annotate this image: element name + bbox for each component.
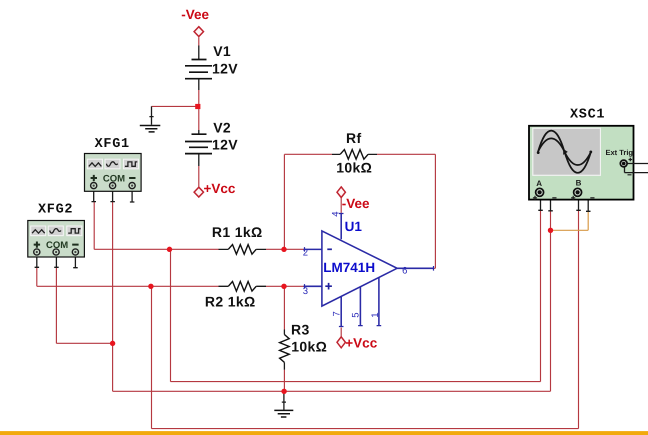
- svg-text:V2: V2: [213, 119, 231, 135]
- svg-text:7: 7: [332, 311, 343, 316]
- svg-text:B: B: [576, 178, 582, 187]
- svg-text:A: A: [536, 179, 542, 188]
- svg-text:V1: V1: [213, 43, 231, 59]
- svg-text:3: 3: [303, 286, 308, 297]
- svg-text:2: 2: [303, 247, 308, 258]
- svg-text:XSC1: XSC1: [570, 107, 605, 122]
- svg-text:XFG1: XFG1: [95, 137, 130, 152]
- svg-text:R2 1kΩ: R2 1kΩ: [205, 293, 256, 309]
- svg-text:12V: 12V: [212, 136, 238, 152]
- svg-text:+Vcc: +Vcc: [345, 336, 377, 351]
- svg-text:U1: U1: [345, 219, 363, 234]
- svg-text:Rf: Rf: [346, 130, 361, 146]
- svg-text:10kΩ: 10kΩ: [291, 338, 327, 354]
- svg-text:-Vee: -Vee: [342, 196, 370, 211]
- svg-text:R1 1kΩ: R1 1kΩ: [212, 224, 263, 240]
- svg-text:+Vcc: +Vcc: [204, 181, 236, 196]
- svg-text:-Vee: -Vee: [181, 7, 209, 22]
- svg-text:4: 4: [331, 212, 342, 217]
- svg-text:LM741H: LM741H: [323, 260, 375, 275]
- svg-text:12V: 12V: [212, 61, 238, 77]
- svg-text:R3: R3: [291, 321, 310, 337]
- svg-text:6: 6: [402, 266, 407, 277]
- svg-text:XFG2: XFG2: [38, 203, 73, 218]
- svg-text:10kΩ: 10kΩ: [336, 160, 372, 176]
- svg-text:1: 1: [370, 313, 381, 318]
- svg-text:Ext Trig: Ext Trig: [606, 148, 634, 157]
- svg-text:5: 5: [351, 313, 362, 318]
